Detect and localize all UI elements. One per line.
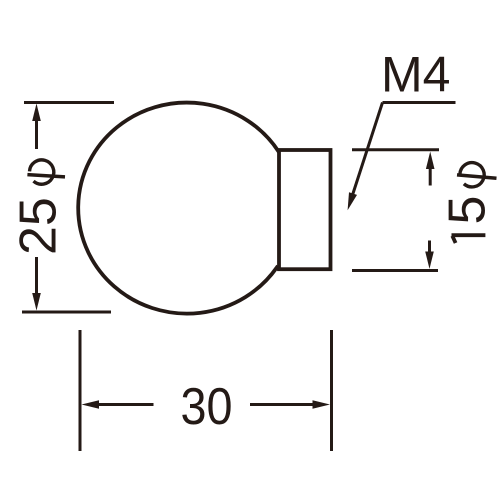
dim 30 right arrow [250,400,330,409]
svg-text:5: 5 [439,196,497,225]
label M4 leader line [353,103,383,196]
dim 25 phi bar [27,175,65,177]
dim 15 text digit 1 stem [452,233,486,237]
dim 25 up arrow [32,104,41,150]
dim 25 phi loop [30,160,54,184]
svg-text:30: 30 [181,378,233,436]
neck rectangle [279,150,331,269]
dim 30 right extension line [330,330,333,451]
dim 30 left arrow [82,400,154,409]
dim 30 left extension line [79,330,82,451]
dim 25 top tick [24,101,114,104]
ball knob outline [78,103,279,314]
label M4 leader arrowhead [348,192,357,210]
svg-text:25: 25 [10,197,68,255]
dim 15 text digit 1 flag [452,236,455,243]
dim 15 down arrow [425,241,434,269]
dim 15 up arrow [426,152,435,186]
label M4 underline [383,101,456,104]
dim 15 phi bar [457,175,497,178]
dim 25 bottom tick [22,311,111,314]
dim 15 top tick [352,148,439,151]
svg-text:M4: M4 [381,47,450,103]
dim 25 down arrow [32,257,41,311]
dim 15 phi loop [460,163,484,187]
dim 15 bottom tick [352,269,438,272]
